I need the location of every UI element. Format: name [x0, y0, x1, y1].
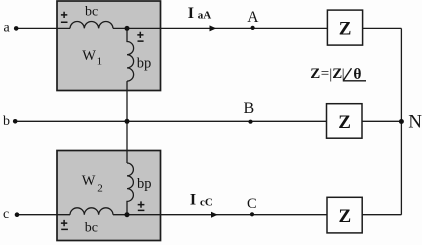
- junction dot W2 windings: [125, 212, 130, 217]
- winding bc of W1: [70, 21, 113, 28]
- svg-text:b: b: [3, 114, 10, 129]
- wire c (terminal c to winding bc of W2): [19, 214, 70, 216]
- svg-text:a: a: [4, 20, 11, 35]
- terminal c dot: [15, 212, 20, 217]
- current arrow IaA: [210, 25, 217, 31]
- wire Z3 to bus N: [362, 214, 401, 216]
- svg-text:Z: Z: [339, 18, 352, 39]
- svg-text:c: c: [3, 207, 9, 222]
- svg-text:Z: Z: [339, 206, 352, 227]
- wire b (terminal b to node N bus via Z2): [17, 120, 327, 122]
- svg-text:2: 2: [97, 183, 103, 195]
- polarity mark of winding bc W2: [61, 220, 68, 230]
- current arrow IcC: [211, 212, 218, 218]
- svg-text:bp: bp: [137, 176, 152, 192]
- node A dot: [251, 26, 255, 30]
- angle symbol slash: [344, 68, 352, 80]
- svg-text:bp: bp: [137, 56, 152, 72]
- svg-text:Z: Z: [310, 66, 320, 82]
- right bus (N vertical wire): [400, 28, 402, 214]
- polarity mark of winding bp W1: [137, 32, 143, 41]
- svg-text:aA: aA: [198, 10, 212, 22]
- winding bp of W1 (vertical): [127, 28, 134, 81]
- svg-text:N: N: [408, 112, 422, 133]
- node N dot: [399, 119, 404, 124]
- load Z2 box: [327, 104, 363, 139]
- polarity mark of winding bp W2: [138, 201, 145, 210]
- transformer W2 box: [57, 151, 161, 241]
- wire aA (W1 to load Z1): [113, 27, 327, 29]
- node B dot: [248, 120, 252, 124]
- load Z3 box: [327, 197, 362, 233]
- wire Z1 to bus N: [363, 27, 402, 29]
- winding bc of W2: [70, 208, 113, 215]
- junction dot W1 windings: [125, 26, 130, 31]
- svg-text:W: W: [82, 173, 96, 189]
- node C dot: [250, 212, 254, 216]
- wire Z2 to node N: [362, 120, 401, 122]
- svg-text:bc: bc: [85, 5, 98, 20]
- svg-text:Z: Z: [338, 112, 351, 133]
- svg-text:A: A: [247, 9, 259, 26]
- polarity mark of winding bc W1: [61, 12, 68, 22]
- wire cC (W2 to load Z3): [113, 214, 327, 216]
- terminal a dot: [14, 26, 19, 31]
- winding bp of W2 (vertical): [127, 163, 133, 215]
- svg-text:bc: bc: [85, 221, 98, 236]
- transformer W1 box: [57, 1, 161, 91]
- junction dot wire b: [125, 119, 130, 124]
- svg-text:=: =: [321, 66, 329, 82]
- svg-text:I: I: [188, 5, 194, 22]
- wire a (terminal a to winding bc of W1): [18, 27, 70, 29]
- svg-text:B: B: [244, 100, 255, 117]
- wire bp W1 bottom to wire b: [126, 81, 128, 121]
- svg-text:1: 1: [97, 56, 103, 68]
- svg-text:C: C: [247, 196, 257, 212]
- load Z1 box: [327, 10, 362, 45]
- svg-text:cC: cC: [200, 196, 213, 208]
- svg-text:I: I: [190, 191, 196, 208]
- terminal b dot: [13, 119, 18, 124]
- svg-text:W: W: [82, 48, 96, 64]
- angle underline: [344, 80, 367, 82]
- wire b junction down to W2: [126, 121, 128, 163]
